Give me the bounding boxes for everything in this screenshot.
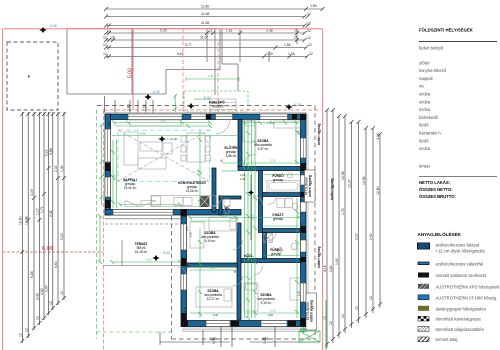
svg-text:fürdő: fürdő	[419, 138, 429, 143]
svg-text:2,25: 2,25	[270, 309, 276, 313]
svg-text:fürdő: fürdő	[419, 123, 429, 128]
svg-text:9,10 m²: 9,10 m²	[205, 239, 216, 243]
ceiling projection dashed cyan in nappali	[118, 130, 210, 182]
window szoba1 top	[260, 114, 288, 120]
svg-text:1,50: 1,50	[212, 337, 216, 344]
svg-text:ÖSSZES BRUTTO:: ÖSSZES BRUTTO:	[419, 194, 456, 199]
svg-text:12,56: 12,56	[362, 176, 366, 185]
svg-text:közlekedő: közlekedő	[419, 115, 439, 120]
svg-text:ANYAGJELÖLÉSEK: ANYAGJELÖLÉSEK	[418, 230, 462, 237]
svg-text:wc: wc	[419, 84, 424, 89]
svg-text:acélszerkezetes falazat: acélszerkezetes falazat	[436, 243, 480, 248]
reinforced concrete pillars (black)	[105, 114, 306, 327]
svg-text:12: 12	[103, 52, 107, 56]
nappali south wall (to terrace)	[105, 210, 187, 216]
bed szoba2 (mid)	[209, 217, 237, 231]
window nappali top	[128, 114, 182, 120]
svg-text:1,71: 1,71	[40, 206, 44, 213]
svg-text:1,05: 1,05	[288, 52, 295, 56]
svg-text:1,09: 1,09	[240, 178, 245, 181]
small dim verticals near building left	[105, 96, 154, 113]
svg-text:12: 12	[307, 29, 311, 33]
svg-text:= +0,00: = +0,00	[167, 137, 178, 141]
gray neighbour/site outline	[67, 29, 297, 96]
svg-text:-0,32: -0,32	[152, 90, 160, 94]
svg-text:1,50: 1,50	[298, 291, 301, 296]
svg-text:1,40: 1,40	[60, 165, 64, 172]
left dim tick marks	[20, 112, 66, 343]
svg-text:2,90: 2,90	[369, 233, 373, 240]
left dimension chain stack	[22, 112, 64, 343]
west wing wall	[181, 210, 187, 327]
svg-text:terasz: terasz	[419, 164, 430, 169]
svg-text:5,84: 5,84	[49, 148, 53, 155]
svg-text:háztartási h.: háztartási h.	[419, 131, 442, 136]
svg-text:2,90: 2,90	[296, 244, 300, 250]
interior wall elöter/szoba	[238, 120, 242, 168]
sideboard nappali	[130, 120, 181, 126]
svg-text:12,27 m²: 12,27 m²	[207, 297, 220, 301]
entrance steps	[210, 99, 236, 113]
svg-text:1,50: 1,50	[160, 119, 166, 123]
svg-text:1,50: 1,50	[298, 130, 301, 135]
sliding door nappali/terasz	[113, 210, 173, 216]
right side dimension chains	[327, 110, 380, 348]
svg-text:+12 cm dryvit hőszigetelés: +12 cm dryvit hőszigetelés	[436, 249, 485, 254]
parking dashed rect P	[7, 42, 58, 110]
svg-text:12: 12	[369, 296, 373, 300]
interior wall corridor/fürdő	[259, 171, 263, 233]
svg-text:12: 12	[103, 36, 107, 40]
bed szoba4 (bottom right)	[244, 283, 258, 311]
svg-text:-0,32: -0,32	[293, 103, 301, 107]
red building envelope dashed	[104, 29, 322, 350]
left exterior wall	[105, 114, 111, 215]
svg-text:12,80: 12,80	[376, 186, 380, 195]
red 5.00 setback dim	[132, 29, 134, 110]
svg-text:1.80: 1.80	[310, 4, 317, 8]
svg-text:6,60: 6,60	[54, 261, 58, 268]
svg-text:2,42: 2,42	[49, 210, 53, 217]
svg-text:beltéri egység: beltéri egység	[330, 179, 334, 200]
svg-text:AUSTROTHERM XPS hőszigetelés: AUSTROTHERM XPS hőszigetelés	[436, 284, 500, 289]
terrace slab lines	[104, 240, 183, 266]
legend item 3: concrete	[418, 273, 487, 279]
interior wall közl/fürdő2	[263, 233, 267, 259]
svg-text:11.80: 11.80	[201, 5, 209, 9]
terasz slab edge lines	[105, 219, 181, 224]
legend item 6: mineral wool	[418, 306, 486, 312]
svg-text:12: 12	[24, 328, 28, 332]
svg-text:12,56: 12,56	[341, 171, 345, 180]
svg-text:2,25: 2,25	[240, 174, 245, 177]
sliding door panels symbol	[125, 201, 156, 207]
svg-text:KÖZL.: KÖZL.	[244, 253, 254, 258]
svg-text:FÖLDSZINTI HELYISÉGEK: FÖLDSZINTI HELYISÉGEK	[419, 28, 474, 33]
svg-text:termett talaj: termett talaj	[436, 337, 458, 342]
red property boundary right	[322, 29, 324, 350]
svg-text:nappali: nappali	[419, 76, 433, 81]
interior wall házt bottom	[263, 229, 301, 233]
svg-text:12: 12	[19, 333, 23, 337]
entrance canopy green outline	[184, 91, 248, 112]
svg-text:10x15/2: 10x15/2	[212, 105, 224, 109]
svg-text:greslap: greslap	[271, 252, 282, 256]
svg-text:12: 12	[355, 306, 359, 310]
tiny black dimension micro-texts	[108, 122, 301, 317]
interior wall konyha/szoba	[187, 210, 242, 216]
entrance door top	[216, 114, 233, 120]
svg-text:11.56: 11.56	[201, 21, 209, 25]
svg-text:ÖSSZES NETTO:: ÖSSZES NETTO:	[419, 187, 453, 192]
svg-text:WC: WC	[224, 206, 230, 210]
green micro labels	[140, 119, 276, 313]
svg-text:szoba: szoba	[419, 92, 431, 97]
interior wall fürdő2 bottom / szoba top	[241, 259, 301, 263]
svg-text:tömörített talajvisszatöltés: tömörített talajvisszatöltés	[436, 327, 484, 332]
svg-text:-0,02: -0,02	[162, 251, 170, 255]
svg-text:előtér: előtér	[419, 60, 430, 65]
toilet házt	[292, 203, 298, 210]
green box bottom right (AC pad)	[299, 331, 320, 342]
svg-text:12: 12	[307, 36, 311, 40]
legend item 7: gravel	[418, 316, 481, 321]
svg-text:12,68: 12,68	[24, 216, 28, 225]
svg-text:9,77: 9,77	[185, 43, 192, 47]
green dimension chains inside	[100, 121, 299, 318]
bathtub fürdő	[267, 181, 300, 193]
exterior insulation thin line top	[104, 112, 307, 114]
green dim above entrance	[186, 78, 239, 80]
extension lines below building	[203, 327, 275, 347]
svg-text:12: 12	[60, 291, 64, 295]
green tick marks	[98, 121, 301, 321]
basin fürdő2	[278, 248, 283, 253]
washer/dryer házt	[277, 199, 285, 208]
wardrobe szoba1	[274, 121, 300, 128]
desk szoba4	[290, 278, 300, 300]
svg-text:greslap: greslap	[273, 178, 284, 182]
svg-text:2,30: 2,30	[54, 165, 58, 172]
svg-text:9,47 m²: 9,47 m²	[258, 147, 269, 151]
svg-text:9,10 m²: 9,10 m²	[261, 301, 272, 305]
left dim labels (rotated)	[19, 148, 65, 337]
windows bottom wall	[206, 321, 230, 327]
window nappali left	[105, 129, 111, 162]
svg-text:szoba: szoba	[419, 107, 431, 112]
benchmark star markers with level labels	[39, 27, 293, 261]
right exterior wall	[301, 114, 307, 327]
svg-text:1,72: 1,72	[341, 208, 345, 215]
svg-text:2,10: 2,10	[270, 159, 276, 163]
basin fürdő	[287, 173, 292, 178]
legend item 8: backfill	[418, 327, 484, 332]
rotated unit labels right of building	[317, 124, 334, 268]
interior wall kitchen/corridor	[212, 168, 216, 212]
indoor unit label box on wall	[305, 170, 316, 202]
svg-text:12: 12	[49, 301, 53, 305]
svg-text:kültéri egység: kültéri egység	[310, 300, 314, 321]
svg-text:NETTO LAKÁS:: NETTO LAKÁS:	[419, 180, 450, 185]
svg-text:6,84: 6,84	[30, 271, 34, 278]
svg-text:2,62: 2,62	[40, 288, 44, 295]
svg-text:12: 12	[307, 12, 311, 16]
kitchen counter	[151, 196, 216, 207]
svg-text:3,09: 3,09	[30, 189, 34, 196]
room labels	[123, 139, 284, 305]
svg-text:MITSUBISHI: MITSUBISHI	[305, 177, 309, 195]
svg-text:4,86: 4,86	[140, 132, 146, 136]
svg-text:2,25: 2,25	[210, 266, 216, 270]
svg-text:1,90: 1,90	[208, 74, 214, 78]
legend item 2: partition	[418, 262, 483, 267]
legend item 1: wall	[418, 243, 485, 254]
green canopy depth dim	[173, 94, 177, 112]
svg-text:4,20: 4,20	[196, 169, 200, 175]
svg-text:2,80: 2,80	[329, 265, 333, 272]
door arcs	[216, 120, 230, 134]
svg-text:5,05: 5,05	[213, 314, 218, 317]
sofa	[124, 132, 138, 165]
top dimension chain lines	[106, 9, 323, 57]
window west wing	[181, 224, 187, 250]
top dimension labels	[103, 4, 317, 56]
svg-text:16,18 m²: 16,18 m²	[135, 250, 148, 254]
bottom dashed eave + dims	[160, 332, 320, 345]
svg-text:19,41 m²: 19,41 m²	[124, 186, 137, 190]
svg-text:12: 12	[329, 321, 333, 325]
svg-text:5,23: 5,23	[60, 233, 64, 240]
outdoor unit label box on wall	[306, 293, 317, 330]
svg-text:2,20: 2,20	[355, 233, 359, 240]
svg-text:ásványgyapot hőszigetelés: ásványgyapot hőszigetelés	[436, 306, 486, 311]
AC piping green	[300, 327, 307, 335]
eaves dashed outline	[97, 106, 315, 340]
svg-text:beltéri egység: beltéri egység	[317, 124, 321, 145]
svg-text:1,17: 1,17	[36, 208, 40, 215]
svg-text:3,42: 3,42	[36, 293, 40, 300]
svg-text:13,06 m²: 13,06 m²	[186, 189, 199, 193]
svg-text:12: 12	[341, 314, 345, 318]
red property boundary left	[2, 29, 4, 350]
svg-text:AUSTROTHERM AT-H80 hőszig.: AUSTROTHERM AT-H80 hőszig.	[436, 295, 498, 300]
armchair	[163, 143, 172, 154]
svg-text:1,80: 1,80	[284, 43, 291, 47]
svg-text:monolit vasbeton szerkezet: monolit vasbeton szerkezet	[436, 273, 488, 278]
wc fixtures	[224, 199, 230, 206]
svg-text:greslap: greslap	[273, 217, 284, 221]
bottom exterior wall	[182, 321, 306, 327]
svg-text:4,18: 4,18	[323, 265, 327, 272]
svg-text:2,25: 2,25	[268, 314, 273, 317]
svg-text:12,07: 12,07	[348, 179, 352, 188]
svg-text:1,00: 1,00	[190, 232, 193, 237]
svg-text:tömörített kavicságyazat: tömörített kavicságyazat	[436, 317, 482, 322]
coffee table	[140, 142, 162, 151]
svg-text:kültéri egység: kültéri egység	[317, 247, 321, 268]
svg-text:1,48: 1,48	[184, 307, 187, 312]
svg-text:4,25: 4,25	[146, 258, 152, 262]
toilet fürdő2	[291, 243, 297, 250]
svg-text:6.00: 6.00	[42, 246, 53, 252]
interior wall szoba/fürdő	[238, 167, 301, 171]
svg-text:konyha-étkező: konyha-étkező	[419, 68, 447, 73]
interior wall wc	[219, 196, 222, 215]
svg-text:szoba: szoba	[419, 146, 431, 151]
svg-text:12: 12	[103, 43, 107, 47]
svg-text:5,35: 5,35	[113, 174, 117, 180]
dining table	[187, 133, 205, 162]
svg-text:1,90: 1,90	[335, 258, 339, 265]
ceiling slope diagonals	[118, 130, 209, 181]
bed szoba1 (top right)	[243, 120, 256, 142]
svg-text:1,50: 1,50	[222, 214, 228, 218]
red 6.00 setback dim	[3, 251, 104, 253]
shower fürdő2	[264, 234, 273, 243]
interior wall fürdő/házt	[263, 193, 301, 197]
legend item 9: native soil	[418, 337, 457, 342]
top exterior wall	[105, 114, 306, 120]
green refrigerant line along property	[325, 300, 327, 350]
svg-text:2,97: 2,97	[45, 285, 49, 292]
black dim vertical in corridor	[250, 175, 252, 240]
legend item 4: XPS	[418, 284, 500, 290]
svg-text:5.00: 5.00	[128, 68, 134, 78]
svg-text:szoba: szoba	[419, 99, 431, 104]
green terasz roof edge dashed	[97, 110, 172, 339]
svg-text:1,05: 1,05	[263, 337, 267, 344]
green dim chain outside left wall	[100, 123, 104, 205]
svg-text:beltéri egység: beltéri egység	[308, 175, 312, 196]
bed szoba3 (bottom left)	[196, 287, 232, 307]
tick marks top dims	[104, 7, 325, 59]
window konyha top	[191, 114, 206, 120]
plinth lines below bottom wall	[182, 328, 306, 332]
svg-text:4,24: 4,24	[376, 133, 380, 140]
red property boundary top	[3, 28, 323, 30]
svg-text:6,86 m²: 6,86 m²	[226, 154, 237, 158]
windows right wall	[301, 138, 307, 158]
svg-text:fedett belépő: fedett belépő	[419, 46, 444, 51]
svg-text:12: 12	[309, 52, 313, 56]
svg-text:12,80: 12,80	[19, 216, 23, 225]
svg-text:acélszerkezetes válaszfal: acélszerkezetes válaszfal	[436, 262, 484, 267]
svg-text:1,19: 1,19	[186, 226, 189, 231]
svg-text:12: 12	[307, 22, 311, 26]
interior wall szoba column right	[237, 223, 241, 320]
svg-text:12: 12	[36, 316, 40, 320]
legend item 5: AT-H80	[418, 295, 497, 301]
interior wall szoba/szoba	[188, 263, 238, 267]
svg-text:11.68: 11.68	[201, 12, 209, 16]
svg-text:MITSUBISHI: MITSUBISHI	[306, 302, 310, 320]
svg-text:12: 12	[308, 43, 312, 47]
svg-text:-0,46: -0,46	[49, 24, 57, 28]
